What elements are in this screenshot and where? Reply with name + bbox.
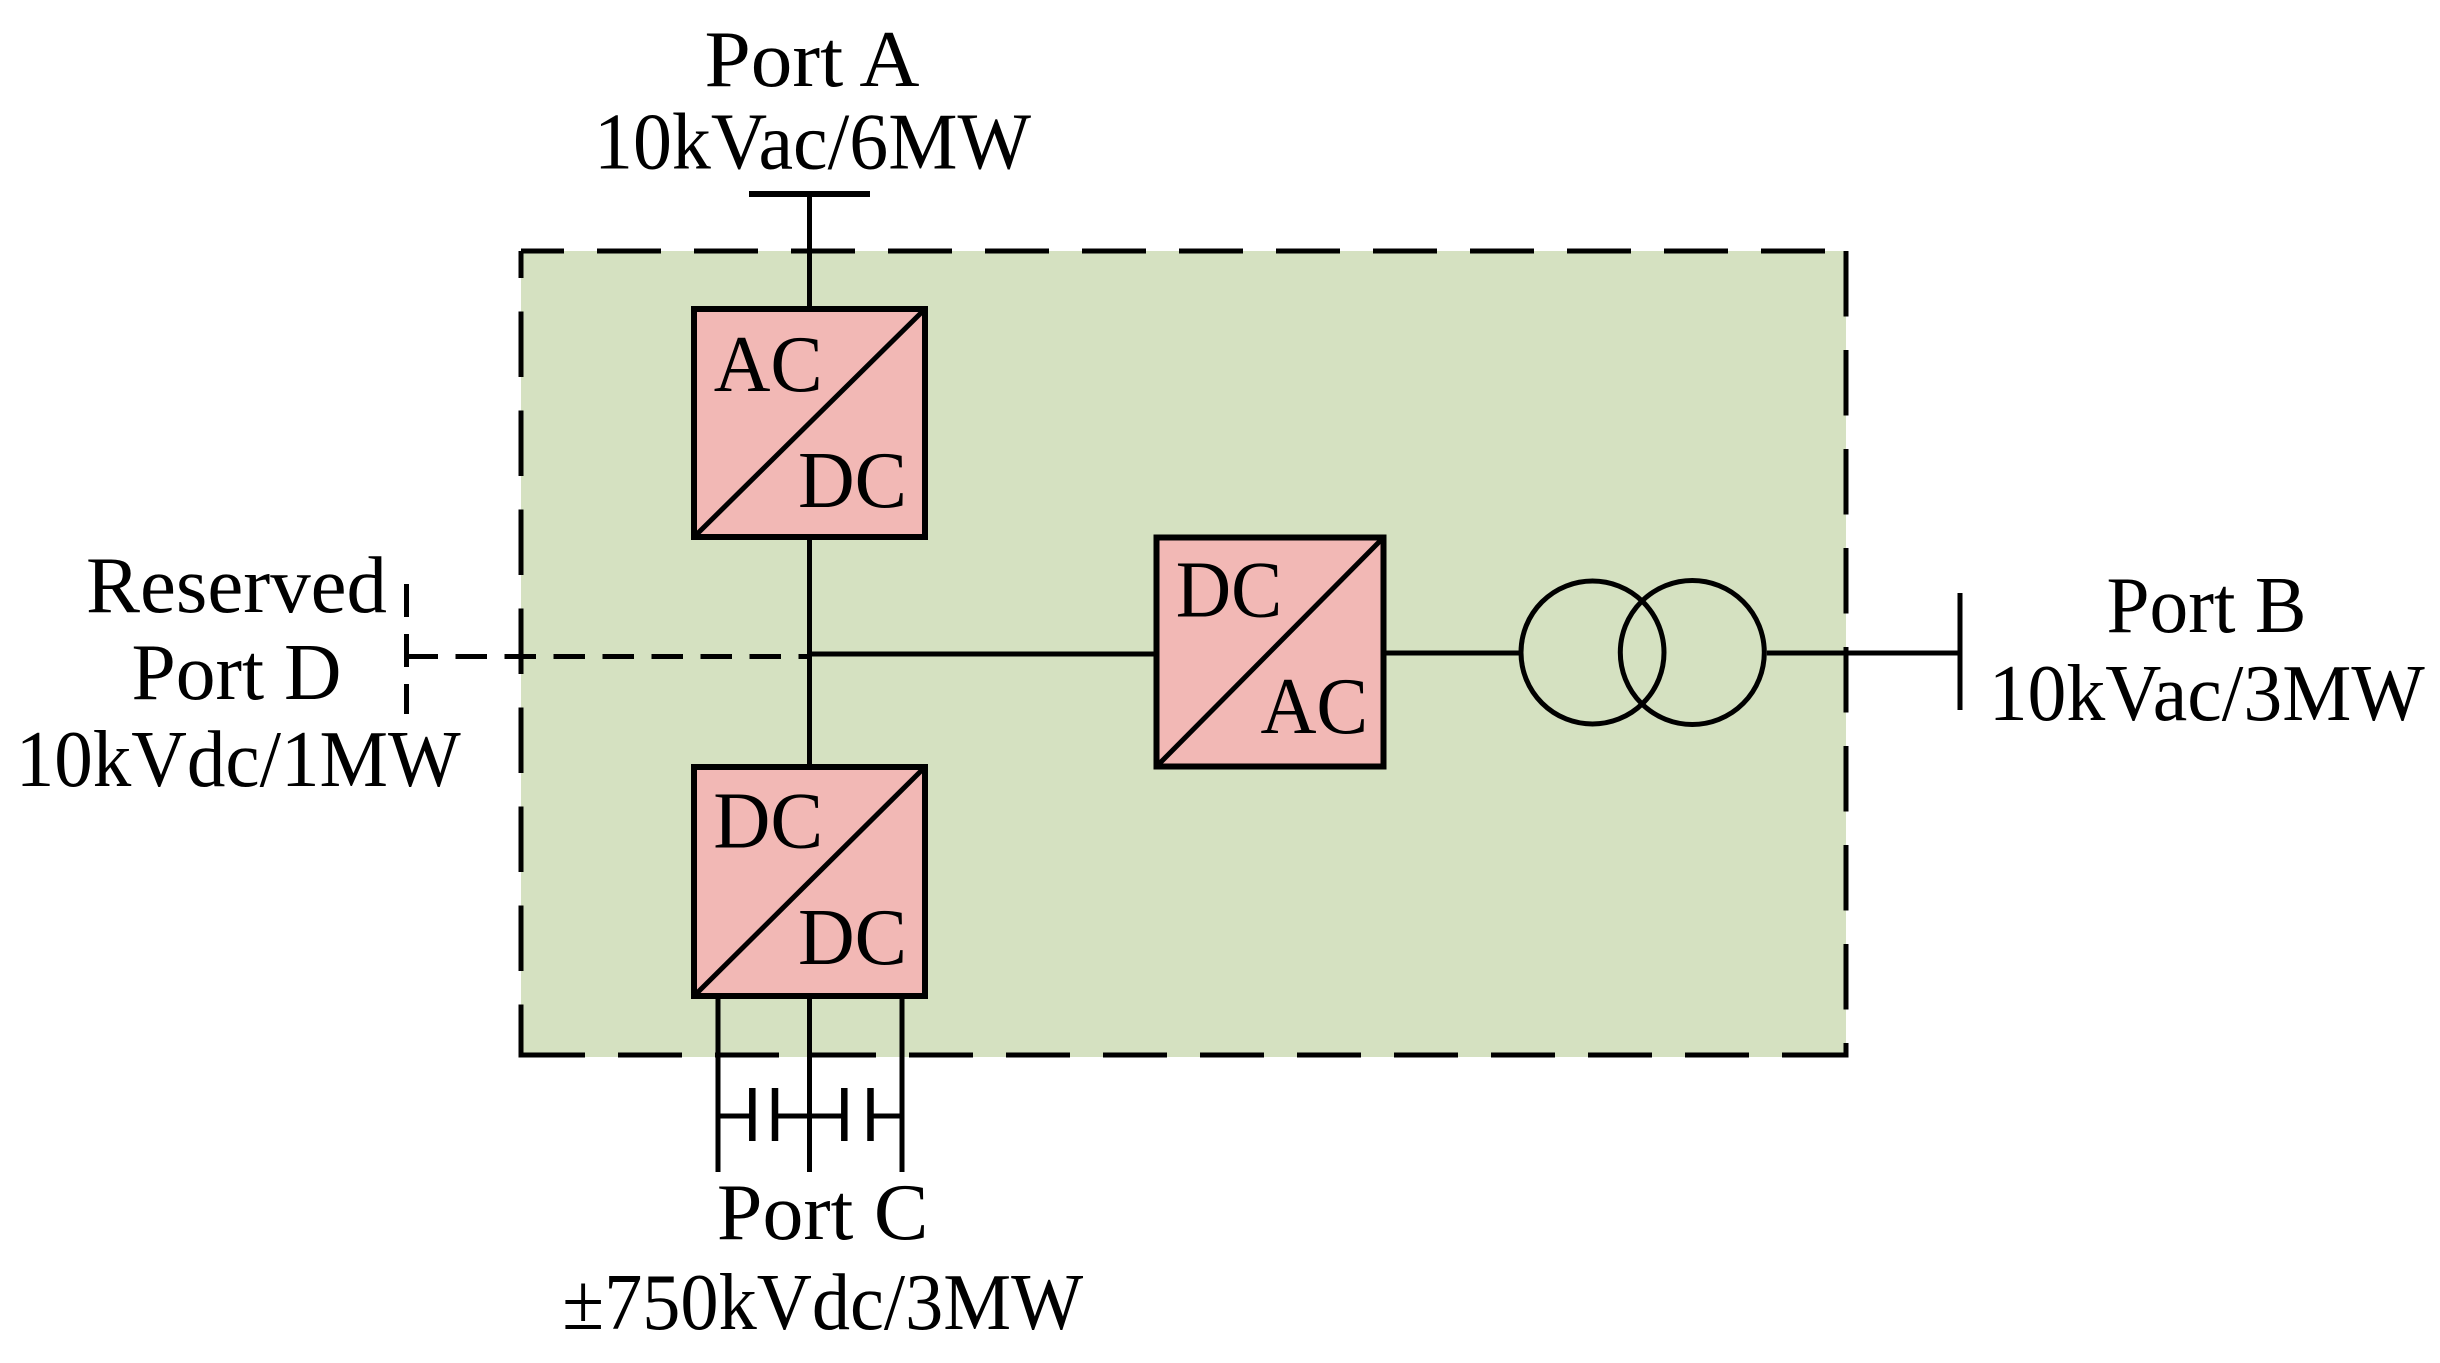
U3 diagonal	[1157, 538, 1384, 767]
U2 diagonal	[694, 767, 925, 996]
converter U2 DC/DC box	[694, 767, 925, 996]
svg-text:AC: AC	[1260, 663, 1368, 751]
svg-text:DC: DC	[713, 777, 823, 865]
converter U1 AC/DC box	[694, 309, 925, 537]
Port B bus bar	[1958, 593, 1963, 710]
boundary top dashed edge	[521, 249, 1846, 254]
wire U2 DC/DC leg 3 (right, Port C)	[900, 996, 905, 1172]
wire transformer to Port B bus	[1767, 651, 1960, 656]
svg-text:DC: DC	[798, 894, 907, 982]
Port D dashed bus bar	[404, 584, 409, 714]
svg-text:DC: DC	[1176, 547, 1283, 635]
svg-text:10kVac/6MW: 10kVac/6MW	[594, 99, 1031, 187]
converter station boundary (green shaded region)	[521, 251, 1846, 1057]
wire U3 DC/AC to transformer	[1384, 651, 1522, 656]
Port A bus bar	[749, 191, 870, 197]
svg-text:Port A: Port A	[705, 16, 920, 104]
transformer T1 secondary winding circle	[1620, 581, 1764, 725]
svg-text:Port B: Port B	[2107, 562, 2307, 650]
wire U2 DC/DC leg 2 (middle, Port C)	[807, 996, 812, 1172]
transformer T1 primary winding circle	[1521, 581, 1664, 724]
capacitor C1 between leg 1 and leg 2	[718, 1088, 810, 1141]
converter U3 DC/AC box	[1157, 538, 1384, 767]
wire U2 DC/DC leg 1 (left, Port C)	[716, 996, 721, 1172]
boundary left dashed edge	[519, 251, 524, 1058]
svg-text:Port D: Port D	[132, 629, 342, 717]
node junction wire to U3 DC/AC	[807, 652, 1157, 657]
wire U1 AC/DC to U2 DC/DC (MVDC bus)	[807, 537, 812, 767]
capacitor C2 between leg 2 and leg 3	[810, 1088, 903, 1141]
svg-text:±750kVdc/3MW: ±750kVdc/3MW	[562, 1259, 1083, 1347]
svg-text:AC: AC	[714, 321, 823, 409]
U1 diagonal	[694, 309, 925, 537]
dashed reserved wire Port D to node	[407, 654, 810, 659]
svg-text:Port C: Port C	[717, 1169, 929, 1257]
svg-text:DC: DC	[798, 437, 907, 525]
svg-text:10kVdc/1MW: 10kVdc/1MW	[16, 716, 461, 804]
boundary right dashed edge	[1844, 251, 1849, 1058]
svg-text:10kVac/3MW: 10kVac/3MW	[1989, 650, 2425, 738]
wire Port A bus to AC/DC converter	[807, 194, 812, 309]
boundary bottom dashed edge	[521, 1053, 1846, 1058]
svg-text:Reserved: Reserved	[86, 542, 387, 630]
